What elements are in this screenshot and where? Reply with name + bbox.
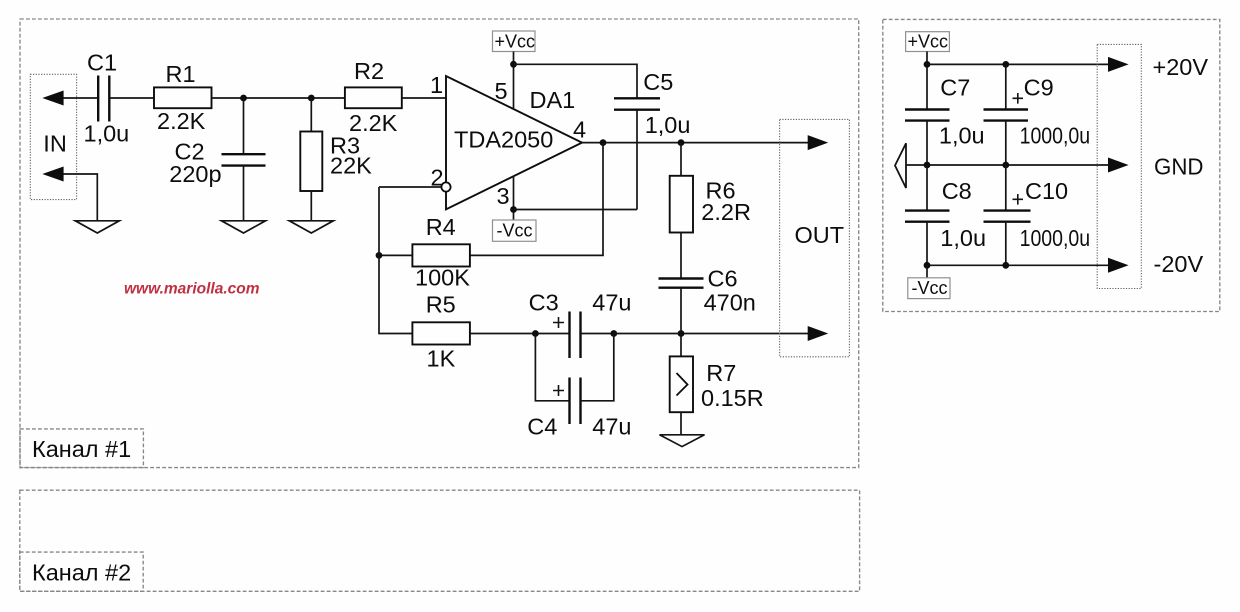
wire lower output to R7 [680,334,682,357]
C4 polarity plus [553,385,564,396]
capacitor C4 [570,378,581,425]
wire output to R6 [680,143,682,176]
node GND C7 junction [924,162,931,169]
wire -Vcc line to C5 [514,209,638,211]
svg-text:2.2K: 2.2K [157,108,206,134]
wire R3 to ground [310,191,312,221]
svg-text:C3: C3 [529,290,559,316]
wire R2 to pin 1 [402,97,446,99]
wire +Vcc to pin 5 [513,52,515,110]
capacitor C8 [905,211,950,222]
wire C10 from GND rail [1005,165,1007,211]
svg-text:100K: 100K [415,265,470,291]
resistor R5 [412,322,470,344]
PSU connector dotted box [1097,44,1141,288]
arrow IN upper [42,91,63,106]
connector OUT dotted box [780,119,850,356]
svg-text:47u: 47u [592,414,631,440]
node output junction R6 [678,139,685,146]
svg-text:220p: 220p [169,161,221,187]
resistor R7 [670,356,693,412]
channel 2 dashed border [20,490,860,591]
op-amp DA1 triangle [446,76,582,209]
svg-text:OUT: OUT [795,222,845,248]
arrow -20V [1108,258,1129,273]
wire C8 from GND rail [926,165,928,211]
svg-text:TDA2050: TDA2050 [454,126,553,152]
svg-text:1: 1 [430,72,443,98]
node PSU +Vcc junction [924,61,931,68]
svg-text:C4: C4 [527,414,557,440]
svg-text:Канал #2: Канал #2 [32,560,131,586]
wire C4 branch right [581,334,614,401]
svg-text:C6: C6 [708,265,738,291]
wire PSU bottom rail [927,264,1111,266]
channel 2 label box [20,552,143,591]
svg-text:C7: C7 [940,75,970,101]
wire C1 to R1 [109,97,154,99]
power supply dashed border [883,19,1220,311]
wire R6 to C6 [680,233,682,279]
ground (C2) [222,221,266,233]
svg-text:R4: R4 [426,214,456,240]
svg-text:Канал #1: Канал #1 [32,436,131,462]
capacitor C7 [905,110,950,121]
svg-text:www.mariolla.com: www.mariolla.com [124,281,260,298]
wire C10 to bottom rail [1005,222,1007,266]
svg-text:-20V: -20V [1154,251,1204,277]
wire -Vcc stub [926,265,928,278]
R7 chevron symbol [677,373,688,396]
svg-text:1K: 1K [427,346,456,372]
wire C7 to GND rail [926,121,928,165]
node output junction feedback [600,139,607,146]
wire C5 to -Vcc line [636,110,638,210]
svg-text:470n: 470n [704,289,756,315]
capacitor C1 [98,76,109,122]
wire feedback output to R4 [470,143,603,256]
C9 polarity plus [1013,93,1024,104]
wire lower output [614,333,810,335]
svg-text:2.2K: 2.2K [349,110,398,136]
arrow IN lower [42,167,63,182]
svg-text:1000,0u: 1000,0u [1020,123,1091,149]
svg-text:+Vcc: +Vcc [908,32,949,52]
wire op-amp output [582,142,810,144]
svg-text:-Vcc: -Vcc [497,221,533,241]
ground (R7) [660,435,705,447]
GND hollow arrow [895,143,906,188]
wire R5 to C3 [470,333,570,335]
svg-text:R7: R7 [706,360,736,386]
node GND C10 junction [1002,162,1009,169]
svg-text:C8: C8 [942,178,972,204]
wire C8 to bottom rail [926,222,928,266]
channel 1 label box [20,429,143,468]
wire R1 to R2 [212,97,345,99]
arrow OUT lower [808,326,829,341]
wire feedback vertical [379,187,412,334]
channel 1 dashed border [20,19,859,468]
resistor R4 [412,244,470,266]
node -Vcc junction [510,206,517,213]
wire PSU +Vcc down to C7 [926,52,928,110]
arrow OUT upper [808,135,829,150]
svg-text:C10: C10 [1025,178,1068,204]
node +Vcc junction [510,61,517,68]
arrow +20V [1108,57,1129,72]
wire PSU GND rail [906,164,1111,166]
svg-text:2.2R: 2.2R [701,199,751,225]
node C3 left junction [532,330,539,337]
wire C9 branch down [1005,64,1007,109]
svg-text:5: 5 [495,78,508,104]
capacitor C9 [984,110,1029,121]
node C3 right junction [610,330,617,337]
svg-text:4: 4 [573,117,586,143]
svg-text:R5: R5 [426,292,456,318]
svg-text:1,0u: 1,0u [84,121,130,147]
C10 polarity plus [1013,194,1024,205]
+Vcc power label box [493,31,536,52]
PSU +Vcc power label box [906,32,950,52]
svg-text:C9: C9 [1024,75,1054,101]
svg-text:-Vcc: -Vcc [912,278,948,298]
node -Vcc C10 junction [1002,262,1009,269]
capacitor C3 [570,312,581,359]
svg-text:1,0u: 1,0u [939,123,985,149]
wire feedback to pin 2 [379,186,441,188]
wire C3 to right junction [581,333,614,335]
pin 2 inverting bubble [441,182,450,191]
wire R7 to ground [680,412,682,435]
wire C2 to ground [243,166,245,221]
-Vcc power label box [493,220,537,241]
svg-text:IN: IN [43,131,67,157]
svg-text:+20V: +20V [1153,54,1209,80]
PSU -Vcc power label box [908,278,950,299]
resistor R6 [670,176,693,233]
wire C6 to lower output [680,288,682,334]
node junction R3 [308,95,315,102]
wire C4 branch left [535,334,569,401]
svg-text:3: 3 [497,183,510,209]
svg-text:R1: R1 [166,61,196,87]
node lower output junction [678,330,685,337]
resistor R1 [154,87,212,108]
resistor R2 [345,87,402,108]
node C9 top junction [1002,61,1009,68]
node -Vcc C8 junction [924,262,931,269]
node feedback junction [376,252,383,259]
capacitor C6 [659,279,704,288]
wire +Vcc rail to C5 [514,64,638,98]
wire C9 to GND rail [1005,121,1007,165]
wire junction to C2 [243,98,245,154]
svg-text:+Vcc: +Vcc [495,32,536,52]
svg-text:47u: 47u [592,290,631,316]
capacitor C2 [222,154,266,165]
connector IN dotted box [30,74,76,199]
node junction C2 [240,95,247,102]
capacitor C5 [614,98,660,109]
svg-text:1,0u: 1,0u [940,225,986,251]
svg-text:1,0u: 1,0u [645,112,691,138]
svg-text:22K: 22K [330,153,372,179]
svg-text:0.15R: 0.15R [701,385,764,411]
ground (IN) [75,221,119,233]
wire IN upper [55,97,98,99]
svg-text:DA1: DA1 [530,87,576,113]
wire IN lower [55,174,97,221]
svg-text:C1: C1 [87,50,117,76]
svg-text:C5: C5 [643,69,673,95]
svg-text:1000,0u: 1000,0u [1020,225,1091,251]
wire pin 3 down [513,176,515,220]
capacitor C10 [984,211,1031,222]
ground (R3) [289,221,333,233]
wire junction to R3 [310,98,312,132]
svg-text:GND: GND [1154,154,1204,180]
resistor R3 [300,132,322,192]
svg-text:R2: R2 [354,58,384,84]
wire R4 to feedback node [379,254,412,256]
wire PSU top rail [927,63,1111,65]
arrow GND [1108,158,1129,173]
C3 polarity plus [553,317,564,328]
